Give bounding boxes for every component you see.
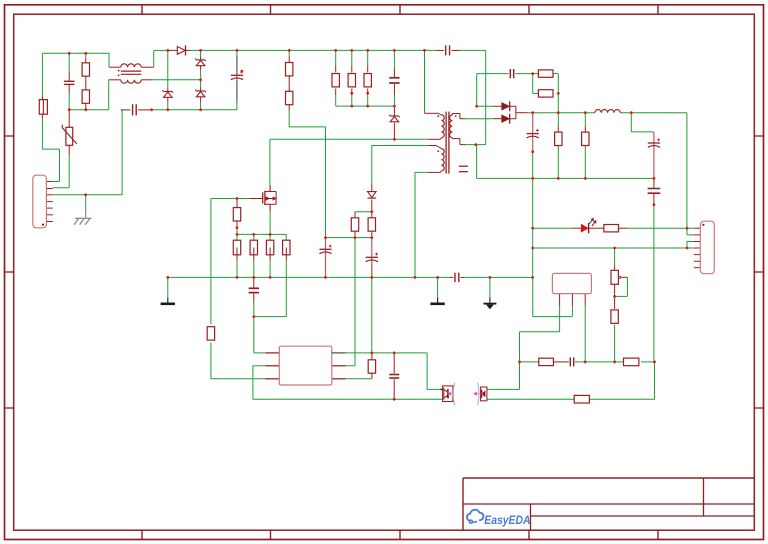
svg-text:EasyEDA: EasyEDA — [484, 513, 530, 527]
